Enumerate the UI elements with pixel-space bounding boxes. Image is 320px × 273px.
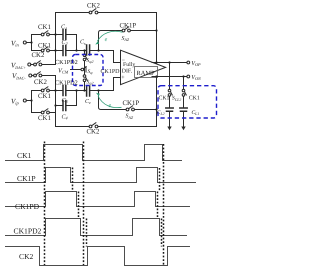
waveform CK1P [5,168,196,183]
svg-text:Cc: Cc [85,99,91,105]
capacitor Cs plates [87,45,90,55]
capacitor Cc plates [87,86,90,96]
switch CK1 (V_ip to C3) [32,90,56,92]
blue dashed box S_phi switches [73,55,104,86]
wire top CK2 rail [56,12,157,14]
switch S_CL2 left (CK1) [168,89,172,96]
wire staircase to amp non-inverting input [99,78,121,91]
switch S_phi2 top [83,54,87,61]
svg-text:Cs: Cs [80,40,86,46]
dotted marker CK1PD2 fall [86,219,88,247]
svg-text:C4: C4 [62,114,68,120]
terminal V_ip [23,99,26,102]
waveform CK2 [5,247,190,266]
svg-text:CK2: CK2 [34,79,47,86]
wire V_CM feed [71,69,82,71]
terminal V_in [23,41,26,44]
junction bus-C3 [54,89,56,91]
wire V_OP output [152,62,187,64]
switch CK2 top [89,9,98,14]
wire load chain left [169,63,171,127]
dotted marker CK1P right fall [159,168,161,192]
switch S_phi [81,67,86,73]
svg-text:CK2: CK2 [87,129,100,136]
svg-text:CK1PD2: CK1PD2 [55,59,78,66]
switch CK1 upper (V_in to C1) [32,34,56,36]
green charge-injection curve bottom [98,96,122,108]
switch S_AZ top [122,27,130,32]
node summing bottom chain tap [83,89,85,91]
svg-text:CK1: CK1 [38,115,51,122]
node summing top chain tap [83,49,85,51]
wire bottom CK2 rail [56,126,157,128]
junction V_OP feedback [155,61,157,63]
switch S_AZ bottom [126,106,134,111]
junction bus-C2 [54,49,56,51]
ground arrow left [167,127,171,131]
wire staircase to amp inverting input [99,51,121,63]
capacitor C3 / bottom node row [56,90,99,92]
terminal V_DAC+ [28,63,31,66]
switch CK2 bottom [89,123,98,128]
svg-text:CK1: CK1 [189,96,200,102]
capacitor C_L2 [166,108,173,111]
svg-text:CK1: CK1 [159,96,170,102]
wire S_phi chain vertical [84,51,86,91]
switch S_phi2 bottom [83,75,87,82]
node summing bottom S_AZ tap [97,89,99,91]
svg-text:CK2: CK2 [32,52,45,59]
wire V_in stub [26,35,31,51]
junction dots [30,29,184,110]
dotted marker CK1PD right fall [157,192,159,219]
svg-text:C1: C1 [61,25,67,31]
svg-text:RAMP: RAMP [137,70,156,77]
waveform CK1 [5,145,182,161]
dotted guide line right fall [163,144,165,265]
green arrowhead bottom [96,93,100,97]
switch CK1 lower (V_in to C2) [32,50,56,52]
blue dashed box C_L [158,86,217,118]
terminal V_OP [187,61,190,64]
dotted marker CK1P fall [72,168,74,192]
wire V_ip stub [26,91,31,113]
svg-text:e: e [105,37,108,43]
capacitor C1 row [56,35,77,51]
svg-text:DIF.: DIF. [122,68,133,74]
svg-text:C2: C2 [62,40,68,46]
switch CK2 V_DAC- row [32,75,56,77]
junction S_AZ bottom-feedback [155,108,157,110]
green charge-injection curve top [97,31,122,41]
node summing top left [75,49,77,51]
junction V_ip branch [30,99,32,101]
wire left bus top [55,13,57,65]
wire right feedback vertical top [156,13,158,63]
junction V_in branch [30,41,32,43]
green arrowhead top [95,41,99,45]
dotted marker CK1PD2 right fall [161,219,163,247]
wire S_AZ top with corner down to summing node [99,31,157,51]
svg-text:SAZ: SAZ [126,114,134,120]
svg-text:Sφ2: Sφ2 [87,58,94,64]
op-amp U1 triangle [121,50,166,84]
waveform CK1PD [5,192,190,207]
junction V_ON feedback [155,75,157,77]
wire load chain right [183,77,185,127]
svg-text:Fully: Fully [123,61,135,68]
junction S_AZ-feedback [155,29,157,31]
dotted marker CK1PD fall [78,192,80,219]
svg-text:CK1P: CK1P [17,174,36,183]
ground arrow right [181,127,185,131]
svg-text:CK1: CK1 [17,151,32,160]
capacitor C_L1 [180,108,187,111]
svg-text:Sφ2: Sφ2 [87,79,94,85]
dotted guide line CK1 fall [83,142,85,266]
green annotation top curve [97,31,122,107]
svg-text:CK1PD2: CK1PD2 [14,227,42,236]
svg-text:CK1: CK1 [38,93,51,100]
svg-text:Sφ: Sφ [88,69,94,75]
svg-text:C3: C3 [62,98,68,104]
switch CK2 V_DAC+ row [31,64,56,66]
svg-text:CK2: CK2 [19,252,34,261]
switch CK1 (V_ip to C4) [32,112,56,114]
junction bus-C1 [54,33,56,35]
junction V_OP load tap [168,61,170,63]
switch S_CL2 right (CK1) [182,89,186,96]
svg-text:CK1PD: CK1PD [15,202,40,211]
svg-text:CK2: CK2 [87,3,100,10]
waveform CK1PD2 [5,219,187,236]
node summing bottom left [75,89,77,91]
svg-text:CK1P: CK1P [120,23,137,30]
wire S_AZ bottom with corner up to bottom node [99,91,157,110]
svg-text:CK1: CK1 [38,24,51,31]
terminal V_DAC- [29,74,32,77]
junction bus-C4 [54,104,56,106]
svg-text:CK1P: CK1P [123,100,140,107]
wire left bus bottom [55,76,57,127]
wire V_ON output [152,76,187,78]
terminal V_ON [187,75,190,78]
capacitor C2 / summing node row [56,50,99,52]
dotted guide line CK1 rise [44,142,46,266]
svg-text:CK1PD2: CK1PD2 [55,79,78,86]
svg-text:SAZ: SAZ [122,36,130,42]
svg-text:CK1PD: CK1PD [101,69,121,75]
svg-text:e: e [109,103,112,109]
capacitor C4 row [56,91,77,106]
wire right feedback vertical bottom [156,77,158,127]
junction V_ON load tap [182,75,184,77]
svg-text:CK1: CK1 [38,42,51,49]
RAMP block [135,67,158,78]
node summing top S_AZ tap [97,49,99,51]
